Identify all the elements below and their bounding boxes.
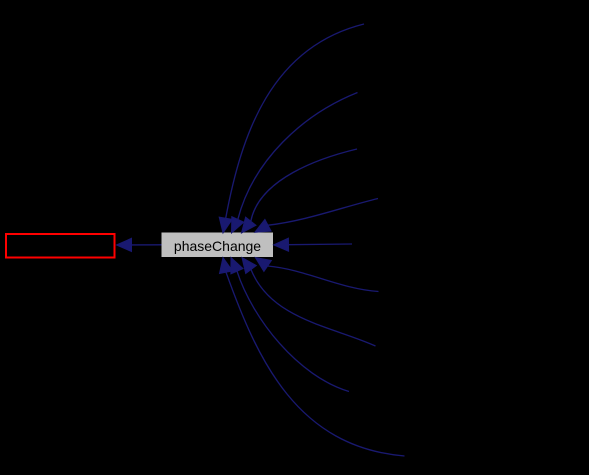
- arrowhead c7: [242, 258, 256, 274]
- arrowhead c2: [232, 217, 244, 233]
- arrowhead c5: [274, 238, 289, 251]
- wire: edge c6 from caller 6: [268, 266, 379, 292]
- arrowhead into red box: [117, 238, 132, 251]
- node phaseChange (current node): [162, 233, 273, 257]
- node: red box (truncated caller node): [6, 234, 115, 258]
- wire: edge c3 from caller 3: [251, 149, 357, 221]
- wire: edge c5 horizontal from caller 5: [289, 243, 353, 246]
- arrowhead c3: [242, 217, 257, 233]
- arrowhead c6: [255, 258, 271, 272]
- wire: edge c8 from caller 8: [237, 271, 349, 391]
- arrowhead c4: [255, 219, 271, 232]
- wire: edge c2 from caller 2: [238, 93, 358, 220]
- arrowhead c1: [219, 217, 232, 233]
- svg-text:phaseChange: phaseChange: [174, 238, 261, 254]
- wire: edge c9 from caller 9: [226, 272, 405, 456]
- arrowhead c8: [231, 258, 243, 274]
- wire: edge c1 from caller 1: [226, 24, 364, 218]
- arrowhead c9: [220, 258, 233, 274]
- wire: edge c4 from caller 4: [268, 199, 378, 226]
- wire: edge phaseChange to red box: [132, 244, 163, 246]
- wire: edge c7 from caller 7: [251, 270, 376, 347]
